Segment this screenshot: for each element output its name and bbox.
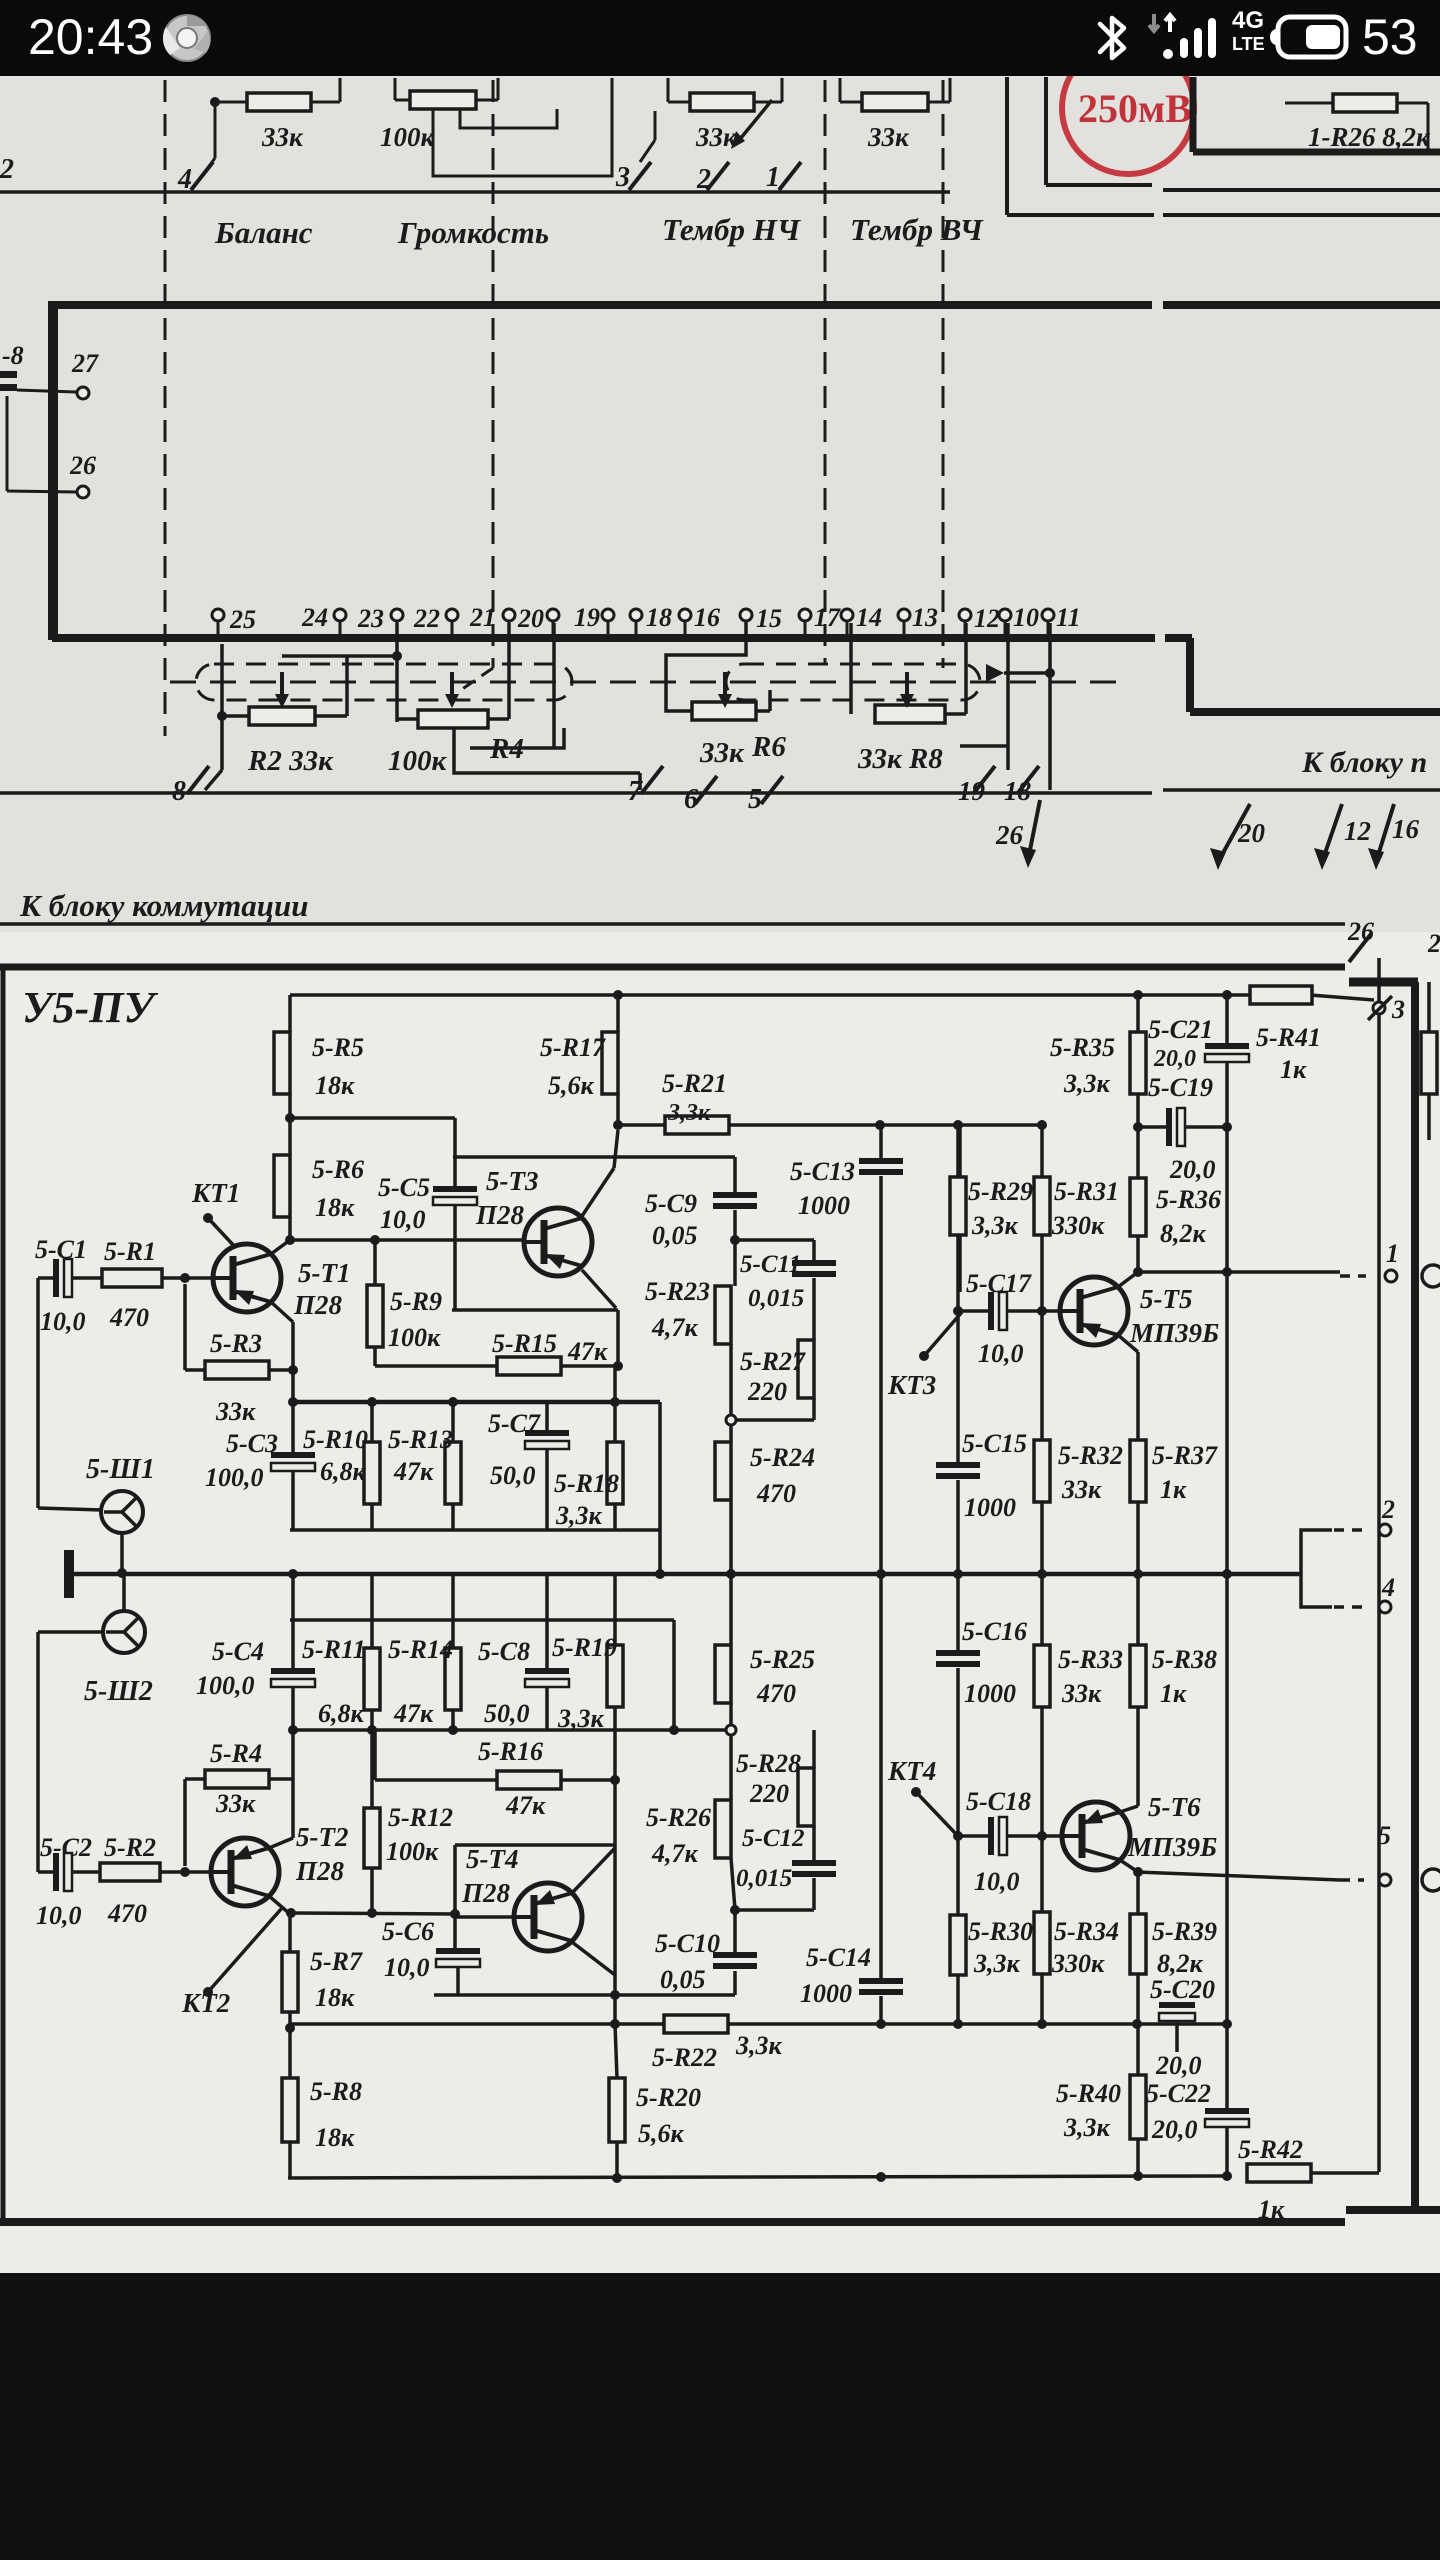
junction [613, 1361, 623, 1371]
svg-text:5-C7: 5-C7 [488, 1409, 541, 1438]
wire [288, 2142, 292, 2178]
svg-text:100к: 100к [380, 122, 436, 152]
resistor 5-R30 [950, 1915, 1033, 1978]
wire [812, 1826, 816, 1860]
resistor 5-R16 [497, 1771, 561, 1789]
capacitor 5-C12 [792, 1860, 836, 1877]
svg-text:5-T5: 5-T5 [1140, 1284, 1192, 1314]
wire [476, 99, 498, 102]
junction [180, 1867, 190, 1877]
wire [455, 1843, 615, 1847]
junction [953, 1306, 963, 1316]
wire [768, 690, 772, 711]
wire top contact line [0, 190, 950, 194]
wire [1048, 623, 1052, 790]
wire [17, 390, 76, 392]
wire [903, 621, 906, 636]
wire [545, 1687, 549, 1730]
potentiometer R8 33к [875, 705, 945, 723]
svg-text:3,3к: 3,3к [555, 1501, 603, 1530]
svg-text:5-R4: 5-R4 [210, 1739, 262, 1768]
resistor 5-R29 [950, 1177, 1033, 1240]
capacitor 5-C10 [713, 1952, 757, 1969]
wire node [293, 1400, 660, 1405]
svg-text:1000: 1000 [798, 1191, 850, 1220]
terminal 13 [898, 609, 910, 621]
wire [1136, 995, 1140, 1032]
contact 19 slash [973, 766, 995, 794]
wire [956, 1235, 960, 1311]
svg-text:5-R16: 5-R16 [478, 1737, 543, 1766]
wire [1225, 995, 1229, 1043]
wire [729, 1736, 733, 1800]
dashed gang stadium 2 [726, 664, 980, 700]
wire [6, 396, 9, 491]
wire [508, 621, 511, 636]
wire [964, 621, 967, 636]
wire [291, 1574, 295, 1620]
wire [1007, 1309, 1060, 1313]
wire [451, 1574, 455, 1648]
svg-text:5-C15: 5-C15 [962, 1429, 1027, 1458]
junction [1037, 2019, 1047, 2029]
svg-text:330к: 330к [1051, 1949, 1105, 1978]
arrow 26 [1020, 800, 1040, 868]
junction [448, 1725, 458, 1735]
capacitor 5-C9 [713, 1192, 757, 1209]
wire [1175, 2021, 1179, 2052]
svg-text:4,7к: 4,7к [651, 1839, 699, 1868]
wire emitter T1 [271, 1302, 293, 1322]
wire [1040, 1502, 1044, 1574]
wire [202, 158, 215, 176]
svg-text:0,05: 0,05 [660, 1965, 706, 1994]
svg-text:5-R18: 5-R18 [554, 1469, 619, 1498]
svg-text:5-R34: 5-R34 [1054, 1917, 1119, 1946]
svg-text:10,0: 10,0 [974, 1867, 1020, 1896]
wire [1136, 1574, 1140, 1645]
resistor 33к (treble) [862, 93, 928, 111]
svg-text:5-R40: 5-R40 [1056, 2079, 1121, 2108]
svg-text:Тембр НЧ: Тембр НЧ [662, 212, 801, 247]
transistor 5-T2 [211, 1838, 279, 1906]
wire collector T4 [572, 1848, 615, 1893]
terminal 11 [1042, 609, 1054, 621]
resistor 5-R17 [540, 1032, 618, 1100]
svg-text:5-C18: 5-C18 [966, 1787, 1031, 1816]
wire [958, 1309, 988, 1313]
resistor 5-R7 [282, 1947, 363, 2012]
wire output column [1377, 958, 1381, 2172]
resistor 100к (volume) [410, 91, 476, 109]
svg-text:26: 26 [69, 451, 96, 480]
probe KT1 wire [208, 1218, 236, 1248]
wire [552, 623, 556, 748]
svg-text:6: 6 [684, 784, 698, 815]
wire [1136, 2139, 1140, 2176]
arrow 20 [1210, 804, 1250, 870]
wire [451, 621, 454, 636]
terminal 17 [799, 609, 811, 621]
junction [953, 2019, 963, 2029]
resistor 5-R24 [715, 1442, 815, 1508]
dashed mechanical link line [170, 681, 1120, 684]
contact 4 slash [191, 162, 213, 190]
terminal 26 [77, 486, 89, 498]
contact 26 slash [1349, 934, 1371, 962]
wiper R2 [275, 672, 289, 708]
svg-text:5-R28: 5-R28 [736, 1749, 801, 1778]
resistor 5-R22 [664, 2015, 728, 2033]
wire [1046, 183, 1152, 187]
svg-text:2: 2 [1381, 1495, 1395, 1524]
svg-text:R2 33к: R2 33к [247, 745, 334, 777]
svg-text:П28: П28 [293, 1290, 343, 1320]
svg-text:5-R7: 5-R7 [310, 1947, 363, 1976]
transistor 5-T3 [524, 1208, 592, 1276]
junction [1222, 990, 1232, 1000]
wire [1044, 77, 1048, 185]
wire [290, 1618, 674, 1622]
dashed control line Тембр НЧ [824, 80, 827, 664]
wire collector T1 [271, 1240, 290, 1254]
contact 2 slash [707, 162, 729, 190]
dashed control line Тембр ВЧ [942, 80, 945, 668]
svg-text:Тембр ВЧ: Тембр ВЧ [850, 212, 984, 247]
wire [507, 623, 511, 719]
dashed control line Громкость [492, 80, 495, 668]
wire [214, 102, 217, 158]
svg-text:1к: 1к [1160, 1679, 1187, 1708]
wire [879, 1574, 883, 1978]
svg-text:6,8к: 6,8к [320, 1457, 367, 1486]
svg-text:У5-ПУ: У5-ПУ [22, 983, 158, 1032]
resistor 5-R1 [102, 1269, 162, 1287]
svg-text:5-R38: 5-R38 [1152, 1645, 1217, 1674]
svg-text:19: 19 [958, 776, 986, 806]
wire [370, 1868, 374, 1913]
junction [1133, 1569, 1143, 1579]
node circle [726, 1725, 736, 1735]
junction [610, 1397, 620, 1407]
junction [610, 1775, 620, 1785]
svg-text:5-C11: 5-C11 [740, 1251, 801, 1278]
wire [470, 728, 564, 748]
junction [285, 2023, 295, 2033]
svg-text:18к: 18к [315, 1193, 355, 1222]
junction [1222, 1267, 1232, 1277]
capacitor 5-C6 [436, 1948, 480, 1967]
junction [367, 1725, 377, 1735]
junction [610, 2019, 620, 2029]
contact 5 slash [761, 776, 783, 804]
svg-text:5-R37: 5-R37 [1152, 1441, 1218, 1470]
resistor 5-R19 [552, 1633, 623, 1733]
wire [1004, 621, 1007, 636]
wire [291, 1402, 295, 1452]
wire [451, 1710, 455, 1730]
terminal 1 [1385, 1270, 1397, 1282]
svg-text:25: 25 [229, 605, 256, 634]
wire [545, 1402, 549, 1430]
svg-text:5-T3: 5-T3 [486, 1166, 538, 1196]
wire [1138, 1125, 1166, 1129]
wire [291, 1471, 295, 1530]
svg-text:1к: 1к [1160, 1475, 1187, 1504]
junction [876, 1569, 886, 1579]
resistor 5-R23 [645, 1277, 731, 1344]
probe KT3 dot [919, 1351, 929, 1361]
capacitor 5-C19 [1166, 1108, 1185, 1146]
resistor 5-R36 [1130, 1178, 1221, 1248]
resistor 33к (bass) [690, 93, 754, 111]
wire [1136, 1094, 1140, 1178]
svg-text:470: 470 [756, 1479, 796, 1508]
resistor 5-R40 [1056, 2075, 1146, 2142]
capacitor 5-C2 [53, 1853, 72, 1891]
svg-text:0,015: 0,015 [748, 1285, 804, 1312]
capacitor 5-C8 [525, 1668, 569, 1687]
wire [1349, 978, 1418, 987]
wire [1310, 995, 1374, 1000]
contact 3 slash [1368, 996, 1392, 1020]
bus wire [1186, 638, 1194, 712]
svg-text:5-C5: 5-C5 [378, 1173, 430, 1202]
wire [658, 1402, 662, 1574]
terminal 27 [77, 387, 89, 399]
wire [666, 621, 746, 711]
svg-text:1к: 1к [1258, 2195, 1285, 2224]
svg-text:5-R21: 5-R21 [662, 1069, 727, 1098]
connector 5-Ш2 [103, 1611, 145, 1653]
svg-text:3,3к: 3,3к [973, 1949, 1021, 1978]
wire [288, 995, 292, 1032]
wire [1225, 1062, 1229, 1272]
svg-text:3: 3 [615, 162, 630, 193]
junction [1222, 1569, 1232, 1579]
svg-text:5-R35: 5-R35 [1050, 1033, 1115, 1062]
svg-text:5-C6: 5-C6 [382, 1917, 434, 1946]
svg-text:3,3к: 3,3к [971, 1211, 1019, 1240]
junction [1037, 1569, 1047, 1579]
wire [1136, 1352, 1140, 1440]
junction [953, 1569, 963, 1579]
terminal 20 [547, 609, 559, 621]
wire volume loop [433, 78, 612, 176]
probe KT1 dot [203, 1213, 213, 1223]
capacitor 5-C17 [988, 1292, 1007, 1330]
wire [1138, 1872, 1340, 1880]
wire [1427, 1094, 1431, 1140]
svg-text:3,3к: 3,3к [667, 1100, 711, 1126]
junction [730, 1235, 740, 1245]
ground bar [64, 1550, 74, 1598]
svg-text:100,0: 100,0 [205, 1463, 264, 1492]
wire [120, 1533, 124, 1573]
resistor 5-R5 [274, 1032, 364, 1100]
svg-text:5-T2: 5-T2 [296, 1822, 348, 1852]
wire [1007, 1834, 1062, 1838]
wire [453, 1205, 457, 1310]
wire [291, 1687, 295, 1730]
svg-text:15: 15 [756, 604, 782, 633]
wire [733, 1157, 737, 1192]
svg-text:5-C1: 5-C1 [35, 1235, 87, 1264]
wire [339, 621, 342, 636]
svg-text:3,3к: 3,3к [1063, 2113, 1111, 2142]
svg-text:22: 22 [413, 604, 440, 633]
svg-text:100к: 100к [388, 745, 448, 777]
svg-text:6,8к: 6,8к [318, 1699, 365, 1728]
svg-text:26: 26 [995, 820, 1024, 850]
junction [1133, 1122, 1143, 1132]
wire [452, 1308, 618, 1312]
wire [840, 101, 862, 104]
resistor 5-R28 [736, 1749, 814, 1826]
resistor 5-R18 [554, 1442, 623, 1530]
junction [217, 711, 227, 721]
svg-text:5: 5 [1378, 1821, 1391, 1850]
wire [222, 714, 249, 718]
capacitor 5-C5 [433, 1186, 477, 1205]
junction [655, 1569, 665, 1579]
svg-text:Громкость: Громкость [397, 215, 549, 250]
wire [960, 1123, 1042, 1127]
svg-text:16: 16 [694, 603, 720, 632]
wire collector T6 [1120, 1860, 1138, 1872]
wire [373, 1240, 377, 1285]
wire [370, 1504, 374, 1530]
terminal 3 [1373, 1002, 1385, 1014]
wire [1185, 1125, 1227, 1129]
svg-text:33к: 33к [867, 122, 910, 152]
svg-text:5-R25: 5-R25 [750, 1645, 815, 1674]
resistor 5-R6 [274, 1155, 364, 1222]
wire [282, 654, 397, 658]
wire [729, 1703, 733, 1725]
resistor 5-R4 [205, 1770, 269, 1788]
wire [1285, 102, 1333, 105]
wire [370, 1402, 374, 1442]
wire [733, 1971, 737, 1995]
svg-text:5: 5 [748, 784, 762, 815]
wire [453, 1845, 457, 1948]
svg-text:18к: 18к [315, 2123, 355, 2152]
ground bus [72, 1572, 1301, 1577]
wire [545, 1449, 549, 1530]
wire node [293, 1728, 730, 1732]
svg-text:26: 26 [1347, 917, 1374, 946]
wire [614, 1130, 618, 1168]
capacitor 5-C22 [1205, 2108, 1249, 2127]
wire [1163, 788, 1440, 792]
svg-text:2: 2 [1427, 929, 1440, 958]
capacitor 5-C20 [1159, 2002, 1195, 2021]
wire [1190, 77, 1197, 152]
wire [812, 1240, 816, 1260]
junction [613, 990, 623, 1000]
svg-text:33к R8: 33к R8 [857, 743, 943, 775]
wire [613, 1366, 617, 1442]
resistor 5-R11 [302, 1635, 380, 1728]
svg-text:33к: 33к [261, 122, 304, 152]
wire [618, 1123, 665, 1127]
wire [1334, 1605, 1364, 1609]
svg-text:1-R26 8,2к: 1-R26 8,2к [1308, 122, 1431, 152]
wire [781, 78, 784, 102]
capacitor 5-C11 [792, 1260, 836, 1277]
wire [1163, 213, 1440, 217]
svg-text:1к: 1к [1280, 1055, 1307, 1084]
wire [290, 1116, 455, 1120]
probe KT2 wire [208, 1908, 282, 1992]
svg-text:5,6к: 5,6к [548, 1071, 595, 1100]
wire [960, 744, 1008, 748]
resistor 5-R21 [665, 1116, 729, 1134]
terminal 2 [1379, 1524, 1391, 1536]
junction [117, 1568, 127, 1578]
wire [729, 1344, 733, 1415]
wire [453, 1155, 735, 1159]
svg-text:МП39Б: МП39Б [1129, 1318, 1219, 1348]
wire [812, 1730, 816, 1768]
transistor 5-T5 [1060, 1277, 1128, 1345]
svg-text:20,0: 20,0 [1155, 2051, 1202, 2080]
wire [1040, 1836, 1044, 1912]
wire [1225, 1272, 1229, 2112]
resistor 5-R20 [609, 2078, 701, 2148]
wire [288, 1217, 292, 1240]
wire [958, 1125, 962, 1292]
wire [269, 1777, 293, 1781]
svg-text:10,0: 10,0 [380, 1205, 426, 1234]
resistor 5-R9 [367, 1285, 442, 1352]
wire [488, 717, 509, 721]
wire [1040, 1311, 1044, 1440]
wire [269, 1368, 293, 1372]
svg-text:250мВ: 250мВ [1078, 86, 1192, 131]
wire [1138, 1270, 1340, 1274]
wire [964, 623, 968, 714]
wire [733, 1210, 737, 1286]
bus wire [48, 301, 1152, 309]
wire [397, 717, 418, 721]
junction [448, 1397, 458, 1407]
svg-text:1000: 1000 [800, 1979, 852, 2008]
wire [1040, 1574, 1044, 1645]
resistor 5-R34 [1034, 1912, 1119, 1978]
svg-text:5-R22: 5-R22 [652, 2043, 717, 2072]
bus wire [1190, 708, 1440, 716]
wire [958, 1834, 988, 1838]
wire [0, 791, 1152, 795]
block border left [1, 967, 6, 2222]
capacitor 5-C21 [1205, 1043, 1249, 1062]
wire [1136, 1974, 1140, 2075]
svg-text:3,3к: 3,3к [1063, 1069, 1111, 1098]
junction [1132, 2019, 1142, 2029]
svg-text:5-R1: 5-R1 [104, 1237, 156, 1266]
wire [375, 1778, 497, 1782]
resistor 5-R39 [1130, 1914, 1217, 1978]
svg-text:5-T4: 5-T4 [466, 1844, 518, 1874]
svg-text:20,0: 20,0 [1151, 2115, 1198, 2144]
connector stub 1-8 [0, 371, 17, 391]
wire [1427, 982, 1431, 1032]
wire [1427, 103, 1430, 150]
capacitor 5-C1 [53, 1259, 72, 1297]
svg-text:5-R30: 5-R30 [968, 1917, 1033, 1946]
